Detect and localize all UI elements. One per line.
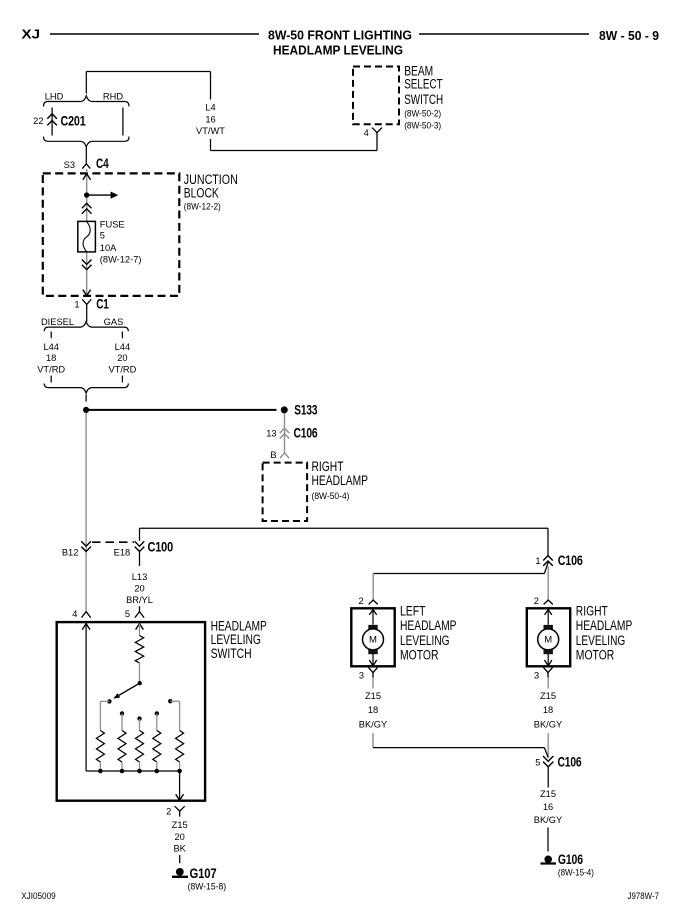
contact node 1 xyxy=(107,699,111,703)
svg-text:10A: 10A xyxy=(100,243,117,253)
contact node 3 xyxy=(137,716,141,720)
bus node 5 xyxy=(177,769,182,774)
resistor R4 xyxy=(153,731,161,763)
connector C100 boundary (dashed) xyxy=(92,541,134,543)
svg-text:SELECT: SELECT xyxy=(404,76,443,91)
wiper arm arrow xyxy=(119,683,140,695)
entry arrow into junction block xyxy=(83,174,91,180)
svg-text:S3: S3 xyxy=(64,160,75,170)
wire LHD branch xyxy=(51,108,53,136)
svg-text:L44: L44 xyxy=(115,342,131,352)
connector C100 pin E18 double chevron xyxy=(135,541,145,546)
wire splice node down to B12 (grey) xyxy=(85,413,87,611)
svg-text:HEADLAMP: HEADLAMP xyxy=(312,473,369,488)
svg-text:C106: C106 xyxy=(558,754,582,770)
resistor R6 rheostat series xyxy=(135,636,143,664)
svg-text:4: 4 xyxy=(72,609,77,619)
svg-text:C100: C100 xyxy=(148,538,174,554)
double chevron below node xyxy=(82,203,92,208)
connector C100 pin B12 double chevron xyxy=(81,541,91,546)
wire to ground G106 xyxy=(547,828,549,852)
svg-text:4: 4 xyxy=(364,128,369,138)
connector half left motor pin 3 xyxy=(369,668,378,673)
contact node 2 xyxy=(120,711,124,715)
wire top horizontal C201-brace to L4 drop xyxy=(86,71,210,73)
svg-text:BK: BK xyxy=(173,843,186,853)
svg-text:18: 18 xyxy=(368,705,378,715)
bus node 2 xyxy=(120,769,125,774)
svg-text:2: 2 xyxy=(359,596,364,606)
svg-text:G106: G106 xyxy=(558,851,583,867)
wire gas branch (dashed) xyxy=(121,332,123,339)
resistor R3 xyxy=(136,731,144,763)
svg-text:M: M xyxy=(544,635,552,646)
option over-brace DIESEL/GAS xyxy=(44,322,128,332)
svg-text:5: 5 xyxy=(100,231,105,241)
svg-text:FUSE: FUSE xyxy=(100,219,125,229)
svg-text:HEADLAMP: HEADLAMP xyxy=(400,618,457,633)
wire splice bus to S133 xyxy=(86,409,276,411)
svg-text:S133: S133 xyxy=(294,402,317,418)
contact node 5 xyxy=(168,699,172,703)
wire left motor ground lower (grey) xyxy=(372,733,374,748)
svg-text:5: 5 xyxy=(125,609,130,619)
wire contact 2 to resistor R2 (grey) xyxy=(121,714,123,731)
svg-text:Z15: Z15 xyxy=(540,789,556,799)
bus node 3 xyxy=(137,769,142,774)
svg-text:2: 2 xyxy=(534,596,539,606)
svg-text:20: 20 xyxy=(175,832,185,842)
wiper node xyxy=(138,681,142,685)
svg-text:(8W-50-3): (8W-50-3) xyxy=(404,121,441,131)
wire contact 4 to resistor R4 (grey) xyxy=(156,714,158,731)
option under-brace merge xyxy=(44,384,128,394)
svg-text:16: 16 xyxy=(205,114,215,124)
right headlamp leveling motor M2 xyxy=(527,608,570,666)
junction block (dashed box) xyxy=(43,173,180,296)
svg-text:G107: G107 xyxy=(190,865,217,881)
svg-text:3: 3 xyxy=(359,670,364,680)
svg-text:LHD: LHD xyxy=(45,92,64,102)
svg-text:(8W-15-8): (8W-15-8) xyxy=(188,882,227,892)
svg-text:22: 22 xyxy=(33,116,43,126)
svg-text:20: 20 xyxy=(117,353,127,363)
svg-text:(8W-50-2): (8W-50-2) xyxy=(404,108,441,118)
connector C1 symbol xyxy=(82,299,91,304)
wire L4 upper segment xyxy=(210,72,212,100)
svg-text:BK/GY: BK/GY xyxy=(534,720,562,730)
svg-text:RIGHT: RIGHT xyxy=(576,604,608,619)
svg-text:VT/WT: VT/WT xyxy=(196,126,225,136)
svg-text:GAS: GAS xyxy=(104,317,124,327)
header rule right xyxy=(419,33,589,35)
svg-text:Z15: Z15 xyxy=(365,691,381,701)
wire C1 to option brace xyxy=(86,310,88,322)
connector half right motor pin 3 xyxy=(544,668,553,673)
resistor R5 xyxy=(176,731,184,763)
svg-text:(8W-50-4): (8W-50-4) xyxy=(312,491,350,501)
svg-text:VT/RD: VT/RD xyxy=(108,364,136,374)
connector chevron left motor pin 2 xyxy=(369,600,378,604)
svg-text:SWITCH: SWITCH xyxy=(404,92,443,107)
beam select switch (dashed box) xyxy=(353,67,399,125)
svg-text:XJI05009: XJI05009 xyxy=(21,891,56,901)
connector half at pin 2 xyxy=(175,806,185,811)
wire diesel branch (dashed) xyxy=(50,332,52,339)
svg-text:18: 18 xyxy=(46,353,56,363)
wire contact 1 to resistor R1 (grey) xyxy=(100,700,109,702)
exit arrow pin 2 xyxy=(176,794,184,800)
svg-text:13: 13 xyxy=(266,428,276,438)
svg-text:8W-50 FRONT LIGHTING: 8W-50 FRONT LIGHTING xyxy=(268,27,412,42)
svg-text:LEVELING: LEVELING xyxy=(400,633,450,648)
left headlamp leveling motor M1 xyxy=(351,608,394,666)
svg-text:HEADLAMP: HEADLAMP xyxy=(576,618,633,633)
option under-brace merge xyxy=(44,137,130,148)
wire inside junction block (grey) xyxy=(86,169,88,221)
branch feed arrow right xyxy=(87,194,112,196)
headlamp leveling switch (box) xyxy=(57,622,205,801)
bus node 4 xyxy=(155,769,160,774)
svg-text:1: 1 xyxy=(535,556,540,566)
svg-text:18: 18 xyxy=(543,705,553,715)
wire C106 pin 5 down xyxy=(547,767,549,788)
svg-text:RIGHT: RIGHT xyxy=(312,459,344,474)
wire pin 4 to resistor bus xyxy=(85,624,87,771)
svg-text:16: 16 xyxy=(543,802,553,812)
connector chevron right motor pin 2 xyxy=(544,600,553,604)
svg-text:Z15: Z15 xyxy=(172,820,188,830)
svg-text:XJ: XJ xyxy=(22,27,41,42)
svg-text:(8W-12-2): (8W-12-2) xyxy=(184,201,221,211)
wire right motor ground upper (grey) xyxy=(547,678,549,689)
svg-text:BK/GY: BK/GY xyxy=(359,720,387,730)
svg-text:J978W-7: J978W-7 xyxy=(628,891,660,901)
exit arrow out of junction block xyxy=(83,290,91,296)
svg-text:20: 20 xyxy=(134,584,144,594)
wire stub below merge xyxy=(85,395,87,402)
wire left motor ground upper (grey) xyxy=(372,678,374,689)
splice S133 xyxy=(281,406,288,413)
right headlamp (dashed box) xyxy=(263,463,308,521)
junction node xyxy=(84,192,89,197)
bus node 1 xyxy=(98,769,103,774)
svg-text:MOTOR: MOTOR xyxy=(576,647,615,662)
connector C106 pin 1 double chevron xyxy=(543,556,553,561)
option over-brace LHD/RHD xyxy=(44,96,130,107)
svg-text:3: 3 xyxy=(534,670,539,680)
svg-text:RHD: RHD xyxy=(103,92,123,102)
contact node 4 xyxy=(155,711,159,715)
svg-text:L4: L4 xyxy=(205,103,215,113)
wire E18 up and across to C106 pin 1 xyxy=(139,528,141,541)
connector C106 pin 13 double chevron xyxy=(280,428,290,433)
wire ground join horizontal xyxy=(373,747,544,749)
svg-text:MOTOR: MOTOR xyxy=(400,647,439,662)
double chevron below fuse xyxy=(82,260,92,265)
entry arrow pin 5 xyxy=(136,624,144,630)
ground G107 xyxy=(176,868,184,876)
svg-text:L13: L13 xyxy=(132,572,148,582)
resistor R1 xyxy=(96,731,104,763)
svg-text:Z15: Z15 xyxy=(540,691,556,701)
svg-text:8W - 50 - 9: 8W - 50 - 9 xyxy=(599,28,659,43)
connector C4 symbol xyxy=(82,164,90,169)
wire pin 5 to rheostat (grey) xyxy=(139,624,141,636)
connector chevron at pin B xyxy=(280,453,289,458)
svg-text:C201: C201 xyxy=(61,113,86,129)
wire brace to C4 xyxy=(85,147,87,164)
svg-text:M: M xyxy=(369,635,377,646)
svg-text:5: 5 xyxy=(535,757,540,767)
connector C201 double chevron xyxy=(47,114,57,119)
svg-text:LEFT: LEFT xyxy=(400,604,426,619)
svg-text:BK/GY: BK/GY xyxy=(534,815,562,825)
wire stub down to C201 option brace xyxy=(85,72,87,94)
svg-text:BLOCK: BLOCK xyxy=(184,186,219,201)
svg-text:2: 2 xyxy=(166,807,171,817)
svg-text:E18: E18 xyxy=(114,548,131,558)
wire contact 3 to resistor R3 (grey) xyxy=(139,719,141,731)
wire C106 to motor branch (grey) xyxy=(547,566,549,600)
svg-text:1: 1 xyxy=(74,300,79,310)
svg-text:DIESEL: DIESEL xyxy=(41,317,74,327)
resistor R2 xyxy=(118,731,126,763)
svg-text:JUNCTION: JUNCTION xyxy=(184,172,238,187)
svg-text:LEVELING: LEVELING xyxy=(576,633,626,648)
svg-text:C106: C106 xyxy=(558,552,583,568)
resistor bus wire xyxy=(86,770,180,772)
svg-text:HEADLAMP LEVELING: HEADLAMP LEVELING xyxy=(273,42,403,57)
connector half at pin 5 xyxy=(139,606,141,611)
wire S133 to C106 pin 13 (grey) xyxy=(284,414,286,453)
svg-text:C106: C106 xyxy=(294,425,318,441)
svg-text:C4: C4 xyxy=(96,155,109,171)
svg-text:C1: C1 xyxy=(96,295,109,311)
svg-text:B: B xyxy=(270,450,276,460)
svg-text:L44: L44 xyxy=(43,342,59,352)
wire contact 5 to resistor R5 (grey) xyxy=(170,700,179,702)
wire bus to pin 2 xyxy=(179,771,181,800)
svg-text:(8W-12-7): (8W-12-7) xyxy=(100,254,142,264)
connector chevron at pin 4 xyxy=(82,612,91,618)
wire right motor ground lower (grey) xyxy=(547,733,549,757)
wire to ground G107 xyxy=(179,855,181,863)
svg-text:VT/RD: VT/RD xyxy=(37,364,65,374)
wire L4 lower segment to beam select switch xyxy=(210,139,212,151)
wire branch to left motor xyxy=(373,573,544,575)
svg-text:SWITCH: SWITCH xyxy=(211,646,252,661)
junction node at splice feed xyxy=(83,407,89,413)
svg-text:(8W-15-4): (8W-15-4) xyxy=(558,868,594,878)
header rule left xyxy=(50,33,259,35)
svg-text:BR/YL: BR/YL xyxy=(126,595,153,605)
svg-text:B12: B12 xyxy=(62,548,79,558)
connector C106 pin 5 double chevron xyxy=(543,756,553,761)
wire E18 down to L13 label xyxy=(139,552,141,567)
fuse 5 10A xyxy=(78,221,96,252)
wire resistor to wiper node (grey) xyxy=(139,663,141,681)
wire RHD branch xyxy=(122,108,124,136)
ground G106 xyxy=(544,856,552,864)
connector half at beam select switch pin 4 xyxy=(372,128,382,133)
entry arrow pin 4 xyxy=(82,624,90,630)
